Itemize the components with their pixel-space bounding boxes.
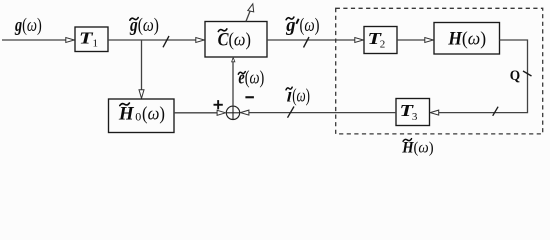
svg-text:(ω): (ω)	[292, 86, 310, 106]
slash bus mark on Q wire	[523, 71, 532, 76]
wire T1 to C	[108, 39, 197, 41]
node g'tilde(w) label	[285, 16, 319, 36]
svg-text:(ω): (ω)	[142, 105, 165, 125]
slash bus mark on gtilde wire	[163, 36, 169, 47]
box H0(w)	[109, 99, 175, 133]
wire summing junction up to C bottom	[232, 58, 234, 106]
svg-text:2: 2	[380, 39, 386, 51]
dashed box Htilde system	[336, 8, 543, 134]
slash bus mark on ltilde wire	[288, 107, 295, 118]
plus sign for left input	[214, 100, 223, 109]
wire H right and down to T3	[438, 40, 528, 113]
wire C to T2	[267, 39, 356, 41]
wire H0 to summing junction	[174, 112, 218, 114]
arrowhead into T1	[66, 38, 75, 43]
svg-text:g(ω): g(ω)	[14, 16, 42, 36]
box T3	[396, 99, 430, 126]
svg-text:T: T	[79, 28, 93, 47]
wire input to T1	[2, 39, 67, 41]
box H(w)	[434, 23, 500, 55]
svg-text:Q: Q	[510, 68, 521, 84]
wire T3 to summing junction	[248, 112, 396, 114]
svg-text:(ω): (ω)	[300, 16, 320, 36]
svg-text:H(ω): H(ω)	[401, 139, 433, 156]
slash bus mark on wire into T3	[493, 107, 498, 116]
node gtilde(w) label	[129, 16, 159, 36]
svg-text:1: 1	[93, 38, 99, 50]
svg-text:g: g	[285, 16, 295, 36]
svg-text:3: 3	[412, 111, 418, 123]
svg-text:g(ω): g(ω)	[129, 16, 159, 36]
svg-text:C(ω): C(ω)	[218, 29, 251, 50]
arrowhead into T2	[355, 38, 364, 43]
wire branch down to H0	[141, 40, 143, 91]
svg-text:e(ω): e(ω)	[238, 69, 264, 89]
wire up-arrow out of C top	[246, 8, 252, 22]
svg-text:H: H	[118, 105, 134, 125]
node Htilde(w) system label	[401, 139, 433, 157]
box T2	[364, 27, 397, 54]
svg-text:0: 0	[135, 110, 141, 124]
arrowhead into C	[196, 38, 205, 43]
arrowhead up out of C	[248, 4, 254, 12]
node ltilde(w) label	[286, 86, 310, 106]
svg-text:H(ω): H(ω)	[447, 29, 486, 49]
box C(w) controller	[205, 22, 267, 58]
small arrowhead into C bottom	[232, 58, 235, 62]
minus sign for right input	[245, 96, 254, 98]
arrowhead into H	[425, 38, 434, 43]
svg-text:l: l	[287, 89, 292, 104]
node etilde(w) label	[238, 69, 264, 89]
arrowhead into summing junction right	[240, 110, 249, 115]
box T1	[75, 27, 108, 52]
arrowhead into T3	[430, 110, 439, 115]
arrowhead into H0	[139, 90, 144, 99]
summing junction	[226, 106, 240, 120]
arrowhead into summing junction left	[217, 110, 226, 115]
slash bus mark on g' wire	[304, 37, 310, 48]
wire T2 to H	[397, 39, 426, 41]
